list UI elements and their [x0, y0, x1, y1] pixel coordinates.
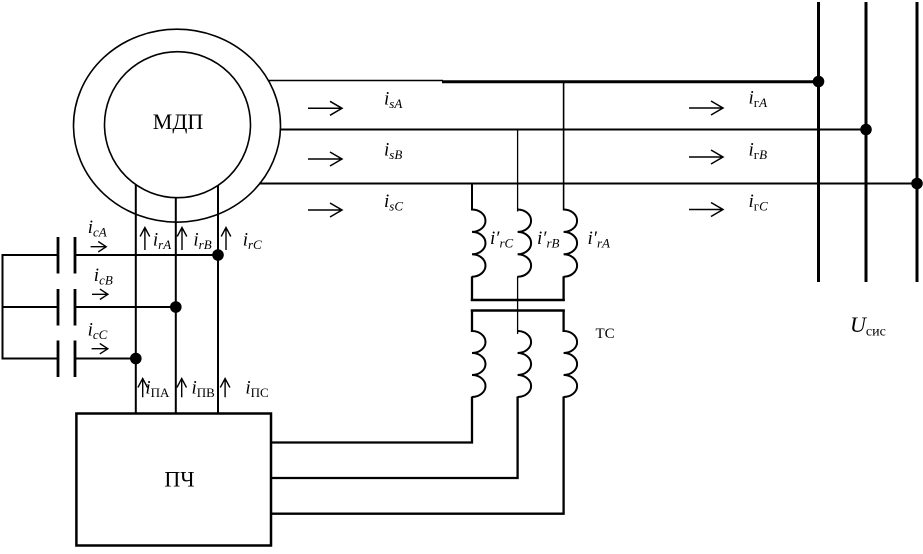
arrow icB [92, 289, 108, 299]
wire rotor phase B [175, 198, 177, 413]
junction dot CB-rotorB [170, 301, 182, 313]
arrow igB [689, 150, 723, 164]
capacitor CC right wire [75, 358, 136, 360]
arrow isC [308, 203, 342, 217]
wire TC coil A top lead [471, 310, 473, 333]
arrow icA [91, 242, 107, 252]
wire TC coil B to ПЧ [271, 397, 518, 479]
junction dot CC-rotorA [130, 353, 142, 365]
arrow igA [689, 101, 723, 115]
capacitor CA left wire [2, 254, 59, 256]
wire grid phase A (thick segment to bus) [442, 80, 820, 83]
inductor TC coil C [564, 331, 578, 397]
arrow iPA [138, 379, 148, 398]
bus bar phase B [865, 2, 868, 282]
wire transformer primary top connection [471, 309, 565, 312]
capacitor CB left wire [2, 306, 59, 308]
svg-text:ПЧ: ПЧ [164, 467, 194, 492]
junction dot CA-rotorC [212, 249, 224, 261]
wire TC coil C to ПЧ [271, 397, 564, 514]
capacitor CB plates [58, 289, 75, 326]
wire coil i'rB bottom lead (thin through) [517, 276, 519, 334]
inductor TC coil A [472, 331, 486, 397]
arrow isA [308, 101, 342, 115]
machine U1 outer circle (stator) [74, 29, 281, 222]
capacitor left bus wire [2, 255, 4, 359]
wire TC coil A to ПЧ [271, 397, 472, 443]
wire rotor phase A [135, 185, 137, 413]
inductor coil i'rC [472, 210, 486, 277]
arrow isB [308, 152, 342, 166]
arrow irB [177, 228, 187, 251]
wire coil i'rC bottom lead [471, 276, 473, 301]
arrow iPC [220, 379, 230, 398]
inductor coil i'rB [518, 210, 532, 277]
arrow irA [140, 228, 150, 251]
wire drop to coil i'rB (thin) [517, 130, 519, 212]
wire stator/grid phase B [280, 129, 866, 131]
wire rotor winding star connection [471, 299, 565, 302]
wire stator phase A (isA) [268, 80, 443, 82]
wire TC coil C top lead [562, 310, 564, 333]
capacitor CC plates [58, 341, 75, 378]
svg-text:ТС: ТС [596, 326, 615, 342]
arrow igC [689, 203, 723, 217]
capacitor CA plates [58, 237, 75, 274]
arrow icC [92, 344, 108, 354]
inductor TC coil B [518, 331, 532, 397]
wire rotor phase C [217, 185, 219, 413]
junction dot bus B [860, 124, 872, 136]
capacitor CA right wire [75, 254, 218, 256]
inductor coil i'rA [564, 210, 578, 277]
machine U1 inner circle (rotor) [105, 52, 251, 198]
bus bar phase A [817, 2, 820, 282]
wire drop to coil i'rA [563, 81, 565, 211]
bus bar phase C [916, 2, 919, 282]
wire coil i'rA bottom lead [562, 276, 564, 301]
junction dot bus A [813, 76, 825, 88]
junction dot bus C [911, 178, 923, 190]
svg-text:МДП: МДП [153, 109, 204, 134]
arrow irC [221, 228, 231, 251]
wire drop to coil i'rC [471, 184, 473, 211]
capacitor CB right wire [75, 306, 176, 308]
capacitor CC left wire [2, 358, 59, 360]
frequency converter ПЧ box [76, 414, 271, 546]
arrow iPB [177, 379, 187, 398]
wire stator/grid phase C [259, 183, 917, 185]
